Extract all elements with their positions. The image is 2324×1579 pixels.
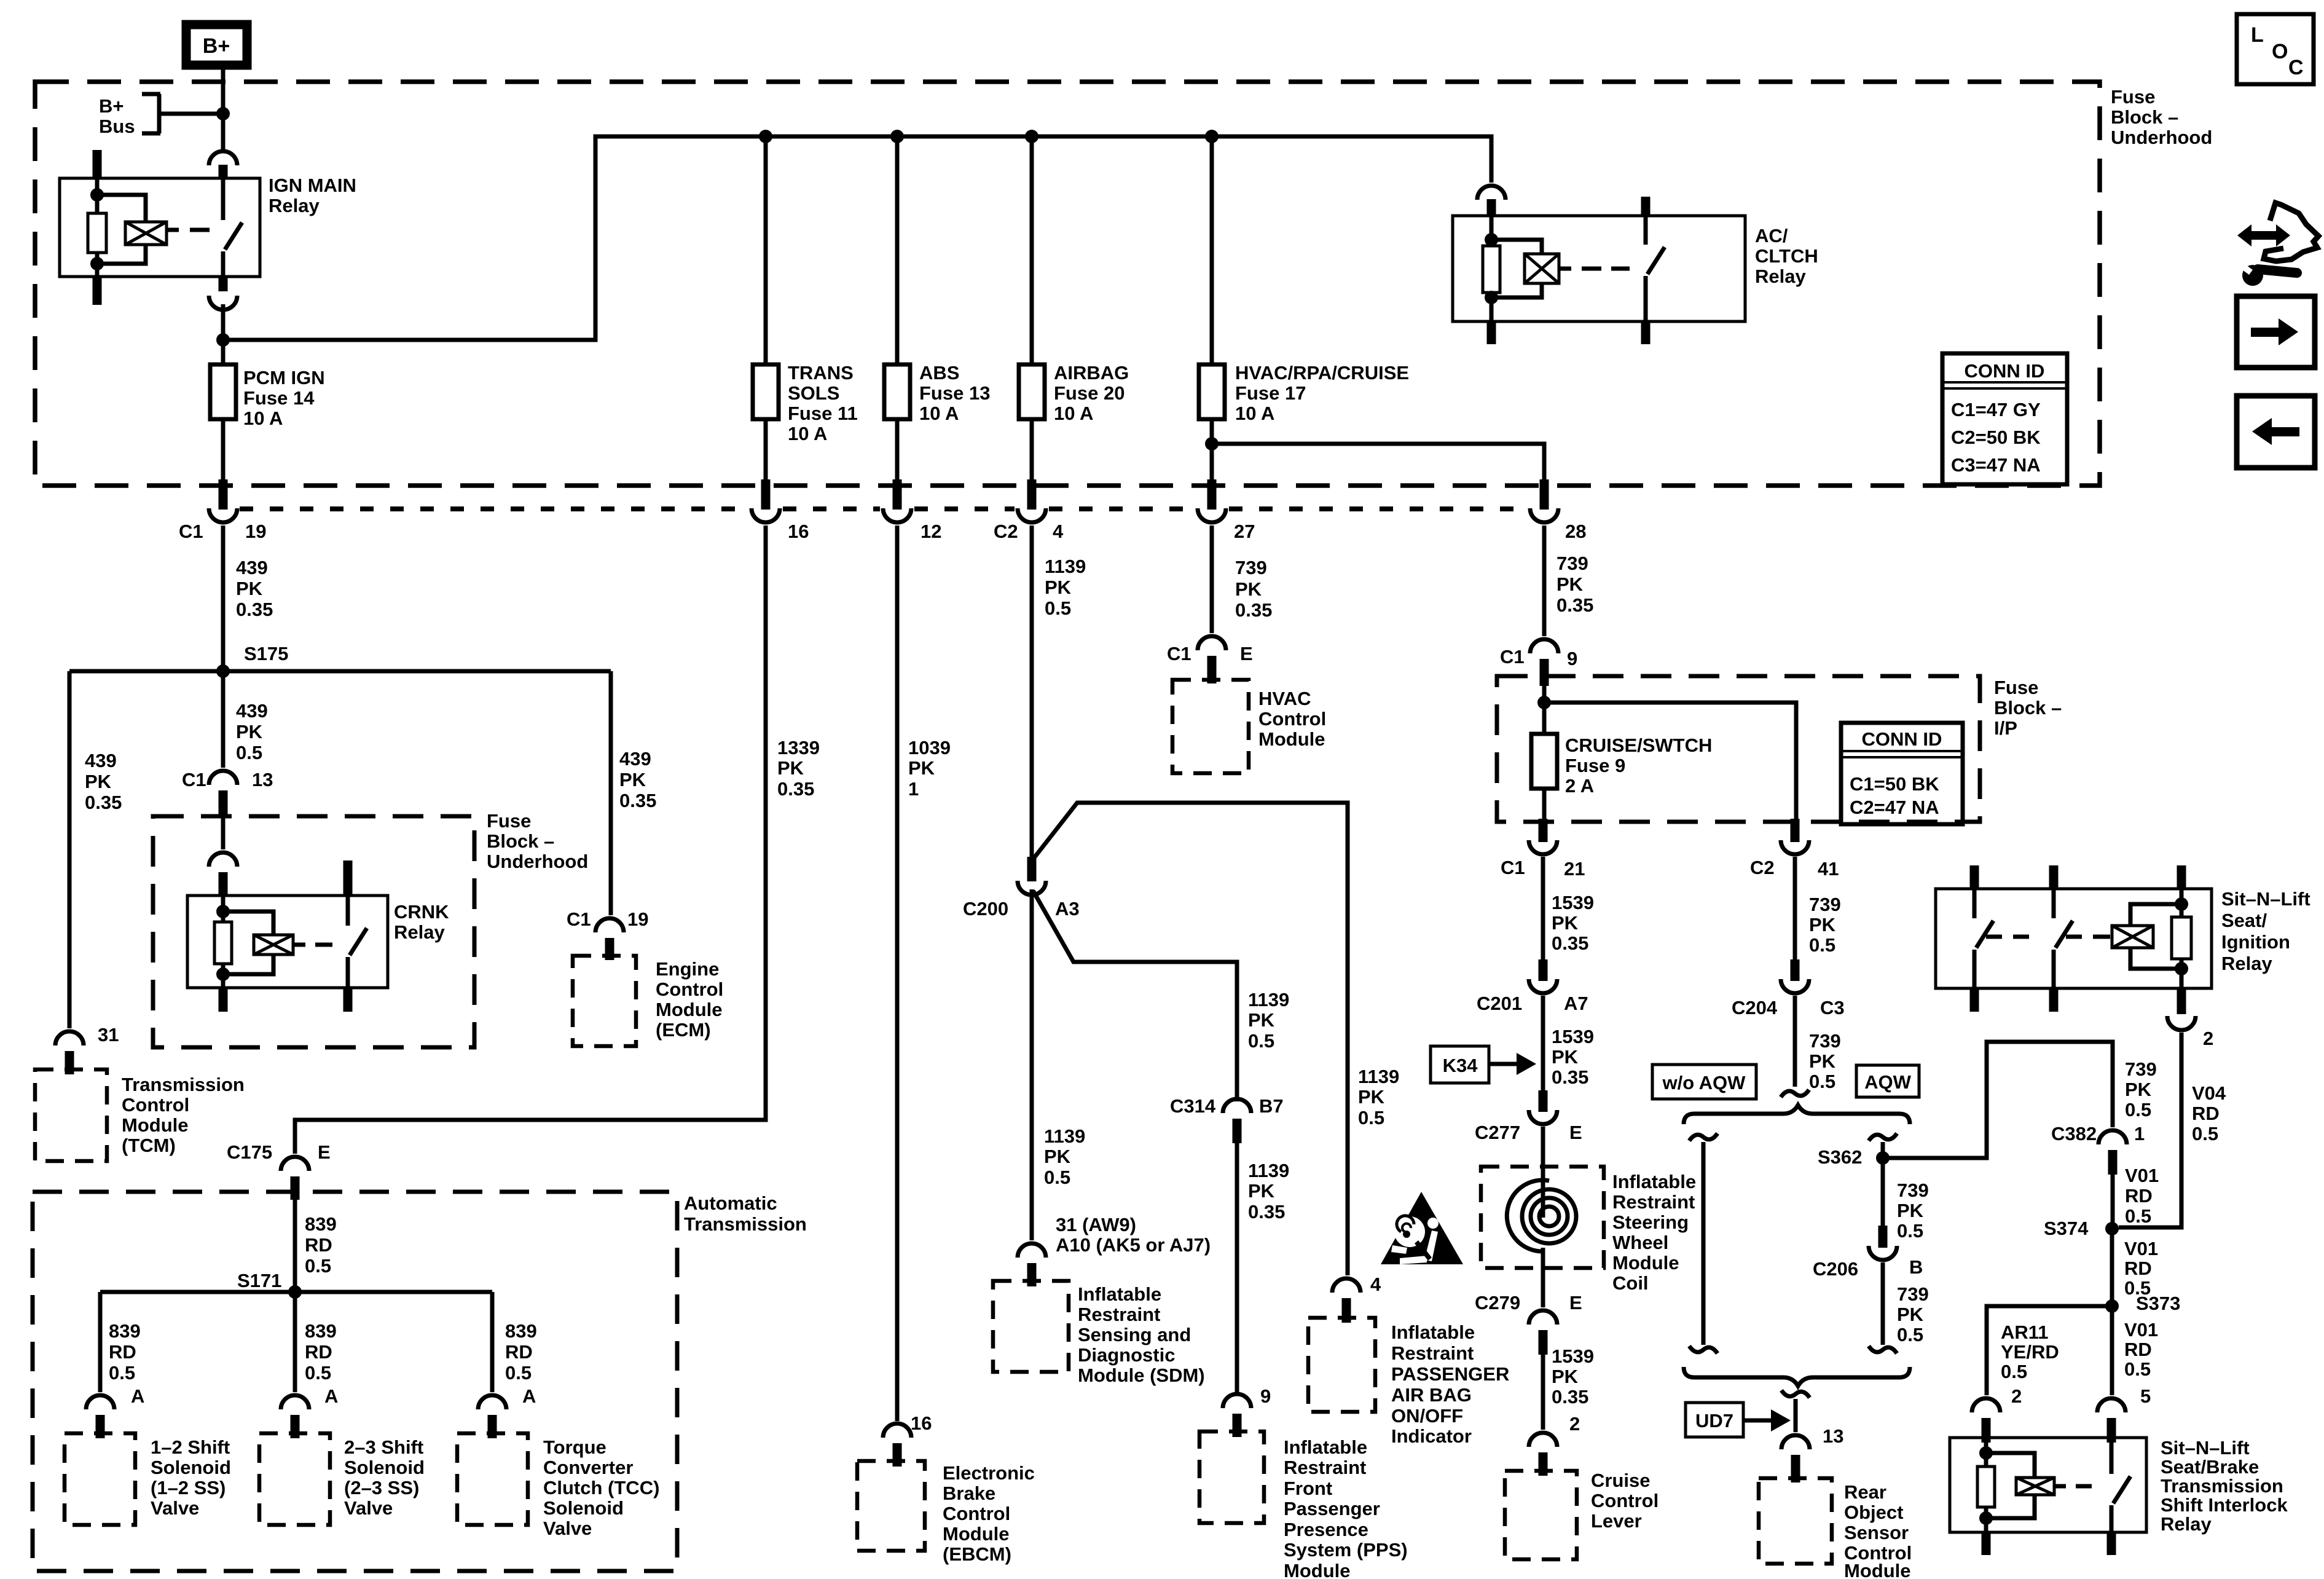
svg-text:TRANS: TRANS	[788, 362, 854, 384]
switch of AC CLTCH relay	[1646, 216, 1665, 321]
junction B+ bus	[216, 107, 230, 120]
wire C1 21 to C201	[1541, 857, 1545, 961]
label V04 RD 0.5	[2192, 1082, 2226, 1144]
svg-text:C314: C314	[1170, 1095, 1216, 1117]
fuse TRANS SOLS Fuse 11	[753, 136, 779, 486]
svg-text:Relay: Relay	[2221, 953, 2272, 974]
svg-text:0.5: 0.5	[2125, 1205, 2151, 1227]
automatic transmission dashed border	[33, 1192, 677, 1571]
option upper brace	[1684, 1105, 1910, 1124]
connector arc 2 seat relay	[2167, 1016, 2196, 1030]
svg-text:Module: Module	[943, 1523, 1010, 1545]
in-line harness connector dotted line	[1229, 506, 1527, 511]
fuse AIRBAG Fuse 20	[1019, 136, 1045, 486]
label A pin1	[131, 1385, 144, 1407]
svg-text:YE/RD: YE/RD	[2001, 1341, 2059, 1363]
relay AC CLTCH box	[1453, 216, 1745, 321]
svg-text:PK: PK	[236, 578, 263, 599]
svg-text:Cruise: Cruise	[1591, 1470, 1650, 1491]
resistor in CRNK relay	[214, 922, 232, 964]
svg-text:E: E	[318, 1141, 331, 1163]
svg-text:Fuse 9: Fuse 9	[1565, 755, 1625, 776]
pin C204 C3	[1791, 959, 1800, 981]
connector arc 27	[1198, 508, 1226, 522]
svg-text:C1=47 GY: C1=47 GY	[1951, 399, 2041, 420]
label 439 PK 0.5	[236, 700, 268, 763]
svg-text:PK: PK	[1235, 578, 1262, 600]
label 27	[1234, 521, 1255, 542]
svg-text:PK: PK	[777, 757, 804, 779]
label 439 PK 0.35 circuit	[236, 557, 273, 620]
module PPS dashed box	[1199, 1431, 1264, 1523]
connector arc 31	[55, 1031, 84, 1045]
svg-text:Block –: Block –	[1994, 697, 2062, 719]
label V01 RD 0.5 b	[2124, 1238, 2158, 1299]
module ECM dashed box	[573, 956, 636, 1046]
svg-text:Fuse 17: Fuse 17	[1235, 382, 1306, 404]
wire C314 to 9	[1235, 1143, 1239, 1393]
svg-text:Module: Module	[1258, 728, 1325, 750]
wire C382 to S374	[2111, 1175, 2115, 1229]
svg-text:1539: 1539	[1552, 1345, 1594, 1367]
svg-text:0.35: 0.35	[619, 790, 656, 811]
svg-text:Module: Module	[122, 1114, 189, 1136]
svg-text:4: 4	[1053, 521, 1064, 542]
svg-text:SOLS: SOLS	[788, 382, 839, 404]
svg-text:4: 4	[1370, 1274, 1381, 1295]
relay CRNK box	[187, 896, 388, 988]
label Inflatable Restraint SDM	[1078, 1283, 1205, 1386]
label S374	[2044, 1218, 2089, 1239]
svg-text:0.5: 0.5	[1897, 1220, 1923, 1242]
label Automatic Transmission	[684, 1192, 807, 1235]
svg-text:V01: V01	[2124, 1319, 2158, 1341]
svg-text:Control: Control	[656, 979, 723, 1000]
svg-text:C200: C200	[963, 898, 1008, 919]
svg-text:9: 9	[1567, 648, 1577, 669]
svg-text:2: 2	[1569, 1413, 1580, 1435]
label 839 RD 0.5 branch2	[305, 1320, 337, 1384]
junction below IGN MAIN relay	[216, 333, 230, 347]
wire C206 to option end	[1881, 1262, 1885, 1345]
junction S171	[288, 1285, 302, 1299]
svg-text:1: 1	[908, 778, 919, 800]
wire C279 to cruise lever	[1541, 1355, 1545, 1430]
B+ battery feed terminal box	[186, 25, 247, 65]
svg-text:PK: PK	[236, 721, 263, 742]
svg-text:31: 31	[98, 1024, 119, 1045]
svg-text:ABS: ABS	[919, 362, 959, 384]
label 1539 PK 0.35 c	[1552, 1345, 1594, 1408]
connector arc A TCC	[478, 1395, 506, 1409]
resistor in IGN MAIN relay	[88, 213, 106, 253]
label 31	[98, 1024, 119, 1045]
coil of AC CLTCH relay	[1525, 254, 1559, 283]
svg-text:1: 1	[2134, 1123, 2145, 1144]
service icon outline	[2264, 203, 2318, 261]
svg-text:PK: PK	[1552, 912, 1579, 934]
svg-text:C2=47 NA: C2=47 NA	[1850, 797, 1939, 818]
wire into clockspring	[1541, 1127, 1545, 1218]
svg-text:PASSENGER: PASSENGER	[1391, 1363, 1509, 1385]
svg-text:19: 19	[627, 908, 648, 930]
svg-text:19: 19	[245, 521, 266, 542]
svg-text:0.5: 0.5	[236, 742, 262, 763]
connector arc C279 E	[1529, 1310, 1557, 1325]
label HVAC/RPA/CRUISE Fuse 17 10 A	[1235, 362, 1409, 424]
label C314 B7	[1170, 1095, 1284, 1117]
AC CLTCH coil branch wire	[1485, 216, 1498, 321]
w/o AQW option wire	[1702, 1142, 1706, 1345]
svg-text:C201: C201	[1477, 993, 1522, 1014]
svg-text:Fuse 14: Fuse 14	[243, 387, 315, 409]
svg-text:B+: B+	[99, 95, 124, 117]
label S171	[237, 1270, 281, 1291]
svg-text:Presence: Presence	[1284, 1519, 1368, 1540]
pin A 1-2	[96, 1415, 105, 1438]
svg-text:C1=50 BK: C1=50 BK	[1850, 773, 1939, 795]
svg-text:C2=50 BK: C2=50 BK	[1951, 427, 2041, 448]
pin into CRNK relay	[219, 872, 228, 897]
fuse CRUISE/SWTCH Fuse 9	[1531, 734, 1557, 824]
switch 1 of seat ignition relay	[1974, 889, 1993, 988]
module EBCM dashed box	[857, 1461, 925, 1551]
pin fuse20 to C2 4	[1027, 479, 1037, 510]
label 1339 PK 0.35	[777, 737, 820, 800]
svg-text:0.5: 0.5	[2125, 1099, 2151, 1120]
fuse block underhood second dashed border	[153, 816, 474, 1047]
label 5 interlock	[2140, 1385, 2151, 1407]
CRNK coil pin bottom	[219, 986, 228, 1012]
svg-text:0.5: 0.5	[1044, 1167, 1070, 1188]
interlock coil pin bottom	[1982, 1531, 1991, 1555]
label 2 interlock	[2011, 1385, 2022, 1407]
svg-text:B: B	[1909, 1256, 1923, 1278]
pin C2 41	[1791, 819, 1800, 842]
junction fuse17 split	[1205, 437, 1219, 451]
svg-text:0.5: 0.5	[1045, 597, 1071, 619]
label 1-2 Shift Solenoid Valve	[151, 1436, 231, 1519]
svg-text:Transmission: Transmission	[2161, 1475, 2283, 1497]
wire S362 to C382	[1883, 1042, 2113, 1158]
wire S171 to 1-2 solenoid	[98, 1292, 103, 1392]
connector arc C1 E HVAC	[1198, 636, 1226, 650]
IGN MAIN coil pin stub top	[93, 150, 102, 179]
wire 27 to HVAC module	[1210, 526, 1214, 633]
svg-text:PK: PK	[1248, 1180, 1275, 1202]
svg-text:Diagnostic: Diagnostic	[1078, 1344, 1175, 1366]
svg-text:0.35: 0.35	[1557, 594, 1593, 616]
svg-text:AR11: AR11	[2001, 1321, 2049, 1343]
seat relay switch2 pin bottom	[2049, 987, 2059, 1012]
svg-text:S171: S171	[237, 1270, 281, 1291]
wire S373 to pin 2	[1987, 1306, 2112, 1395]
label 1539 PK 0.35 a	[1552, 892, 1594, 954]
connector arc 16	[752, 508, 780, 522]
label C277 E	[1475, 1122, 1582, 1143]
svg-text:Seat/: Seat/	[2221, 910, 2267, 931]
wire fuse17 to pin 28	[1212, 444, 1544, 486]
label 2 seat relay	[2203, 1028, 2213, 1049]
fuse HVAC/RPA/CRUISE Fuse 17	[1199, 136, 1225, 486]
svg-text:Inflatable: Inflatable	[1391, 1321, 1475, 1343]
svg-text:C3=47 NA: C3=47 NA	[1951, 454, 2041, 476]
svg-text:839: 839	[505, 1320, 537, 1342]
wire S171 horizontal	[100, 1290, 492, 1294]
svg-text:Fuse 20: Fuse 20	[1054, 382, 1125, 404]
pin C279 E	[1539, 1330, 1548, 1355]
svg-text:Control: Control	[943, 1503, 1010, 1524]
svg-text:HVAC: HVAC	[1258, 688, 1311, 709]
svg-text:Inflatable: Inflatable	[1612, 1171, 1696, 1192]
svg-text:Solenoid: Solenoid	[344, 1457, 425, 1478]
wire S374 to S373	[2110, 1229, 2114, 1306]
junction S362	[1876, 1151, 1890, 1165]
svg-text:PK: PK	[1552, 1366, 1579, 1387]
pin C206 B	[1878, 1226, 1888, 1248]
coil of IGN MAIN relay	[125, 222, 167, 245]
wire C201 to C277	[1541, 996, 1545, 1092]
label 12	[921, 521, 941, 542]
label AR11 YE/RD 0.5	[2001, 1321, 2059, 1382]
label w/o AQW box	[1652, 1065, 1756, 1099]
pin to 28	[1540, 479, 1549, 510]
svg-text:PCM IGN: PCM IGN	[243, 367, 325, 388]
label UD7 box	[1686, 1403, 1743, 1437]
svg-text:Indicator: Indicator	[1391, 1425, 1472, 1447]
svg-text:839: 839	[305, 1320, 337, 1342]
svg-text:Control: Control	[1591, 1490, 1659, 1511]
label 739 PK 0.5 b	[1809, 1030, 1841, 1092]
label S362	[1818, 1146, 1862, 1168]
label IGN MAIN Relay	[269, 175, 356, 216]
label C2 41	[1750, 857, 1839, 880]
pin C314 B7	[1233, 1119, 1242, 1143]
svg-text:0.5: 0.5	[305, 1255, 331, 1277]
svg-text:0.35: 0.35	[236, 599, 273, 620]
svg-text:C3: C3	[1820, 997, 1845, 1018]
svg-text:PK: PK	[1248, 1009, 1275, 1031]
pin fuse17 to 27	[1207, 479, 1217, 510]
junction bus HVAC	[1205, 130, 1219, 143]
svg-text:739: 739	[1557, 553, 1588, 574]
label 28	[1565, 521, 1586, 542]
wire inside IP block	[1544, 682, 1796, 824]
svg-text:A: A	[324, 1385, 338, 1407]
option merge tilde	[1781, 1390, 1810, 1398]
pin A TCC	[488, 1415, 497, 1438]
switch 2 of seat ignition relay	[2054, 889, 2073, 988]
label Cruise Control Lever	[1591, 1470, 1659, 1532]
svg-text:41: 41	[1818, 858, 1839, 880]
svg-text:C206: C206	[1813, 1258, 1858, 1280]
option split tilde	[1781, 1090, 1809, 1097]
wire S171 to 2-3 solenoid	[293, 1292, 297, 1392]
svg-text:0.5: 0.5	[2192, 1123, 2218, 1144]
svg-text:28: 28	[1565, 521, 1586, 542]
svg-text:V04: V04	[2192, 1082, 2226, 1104]
wire S171 to TCC solenoid	[490, 1292, 495, 1392]
svg-text:Solenoid: Solenoid	[543, 1497, 624, 1519]
svg-text:1139: 1139	[1044, 1125, 1085, 1147]
clockspring coil spiral	[1507, 1180, 1576, 1251]
svg-text:13: 13	[252, 769, 273, 790]
svg-text:1539: 1539	[1552, 892, 1594, 913]
CRNK coil dashed link	[293, 943, 332, 947]
pin 31 SDM	[1027, 1263, 1037, 1286]
label 839 RD 0.5 branch1	[109, 1320, 141, 1384]
svg-text:Relay: Relay	[1755, 266, 1806, 287]
label 1139 PK 0.5 top	[1045, 556, 1086, 619]
svg-text:2: 2	[2203, 1028, 2213, 1049]
wire B+ to IGN MAIN relay	[221, 65, 226, 149]
fuse block underhood dashed border	[35, 82, 2100, 486]
pin C1 13	[219, 790, 228, 817]
module TCM dashed box	[35, 1069, 107, 1161]
svg-text:0.5: 0.5	[305, 1362, 331, 1384]
svg-text:0.35: 0.35	[777, 778, 814, 800]
svg-text:PK: PK	[1809, 914, 1836, 935]
label C206 B	[1813, 1256, 1923, 1280]
svg-text:RD: RD	[2124, 1339, 2152, 1360]
svg-text:10 A: 10 A	[243, 408, 283, 429]
svg-text:PK: PK	[2125, 1079, 2152, 1100]
seat relay coil loop	[2130, 904, 2181, 969]
svg-text:Solenoid: Solenoid	[151, 1457, 231, 1478]
airbag warning triangle icon	[1381, 1192, 1463, 1264]
wire bus to fuse row	[223, 136, 1491, 340]
svg-text:439: 439	[236, 700, 268, 722]
connector arc 9 PPS	[1223, 1394, 1251, 1408]
svg-text:12: 12	[921, 521, 941, 542]
pin C277 E	[1539, 1090, 1548, 1112]
svg-text:1139: 1139	[1358, 1066, 1399, 1087]
connector arc C200 A3	[1018, 881, 1046, 895]
svg-text:439: 439	[236, 557, 268, 578]
relay IGN MAIN box	[60, 178, 260, 277]
wire 12 to EBCM	[895, 526, 900, 1421]
svg-text:L: L	[2251, 23, 2264, 47]
svg-text:C1: C1	[567, 908, 591, 930]
in-line harness connector dotted line	[914, 506, 1015, 511]
AC CLTCH coil pin bottom	[1487, 320, 1496, 344]
svg-text:Restraint: Restraint	[1612, 1191, 1695, 1213]
svg-text:RD: RD	[305, 1234, 332, 1256]
svg-text:439: 439	[85, 750, 117, 771]
pin 13 rear object	[1791, 1455, 1800, 1483]
pointer arrow right box	[2237, 296, 2315, 368]
relay Sit-N-Lift Seat/Ignition box	[1936, 889, 2212, 988]
svg-text:31 (AW9): 31 (AW9)	[1056, 1214, 1136, 1235]
pin C201 A7	[1539, 959, 1548, 981]
svg-text:C175: C175	[227, 1141, 272, 1163]
svg-text:0.35: 0.35	[1552, 932, 1588, 954]
connector arc 28	[1530, 508, 1558, 522]
label C382 1	[2051, 1123, 2145, 1144]
seat relay switch1 pin top	[1970, 865, 1979, 890]
pin 31 TCM	[65, 1051, 74, 1074]
wire C204 to option split	[1793, 996, 1797, 1087]
connector arc C1 21	[1529, 840, 1557, 854]
module SDM dashed box	[993, 1281, 1069, 1372]
label 739 PK 0.35 circuit27	[1235, 557, 1272, 621]
IGN MAIN coil branch wire	[90, 178, 104, 277]
svg-text:AIRBAG: AIRBAG	[1054, 362, 1129, 384]
svg-text:PK: PK	[85, 771, 112, 792]
svg-text:Control: Control	[122, 1094, 189, 1116]
in-line harness connector dotted line	[240, 506, 748, 511]
svg-text:S362: S362	[1818, 1146, 1862, 1168]
label B+ Bus	[99, 95, 135, 137]
svg-text:C277: C277	[1475, 1122, 1520, 1143]
interlock switch pin bottom	[2107, 1531, 2116, 1555]
svg-text:Clutch (TCC): Clutch (TCC)	[543, 1477, 659, 1498]
svg-text:C1: C1	[1167, 643, 1191, 664]
svg-text:Module: Module	[1612, 1252, 1679, 1274]
svg-text:(EBCM): (EBCM)	[943, 1543, 1011, 1565]
service icon double arrow	[2237, 224, 2290, 246]
svg-text:16: 16	[788, 521, 809, 542]
w/o AQW option wire hook top	[1689, 1133, 1717, 1141]
svg-text:Automatic: Automatic	[684, 1192, 777, 1214]
pin 2 interlock	[1982, 1418, 1991, 1443]
label C201 A7	[1477, 993, 1588, 1014]
pin 16 EBCM	[893, 1443, 902, 1467]
label 1139 PK 0.35	[1248, 1160, 1289, 1223]
svg-text:Passenger: Passenger	[1284, 1498, 1380, 1519]
connector arc A 1-2	[86, 1395, 114, 1409]
svg-text:Sit–N–Lift: Sit–N–Lift	[2161, 1437, 2250, 1459]
pin C1 21	[1539, 819, 1548, 842]
wire C2 41 to C204	[1793, 857, 1797, 961]
svg-text:1539: 1539	[1552, 1026, 1594, 1047]
svg-text:C1: C1	[182, 769, 206, 790]
label Sit-N-Lift Seat Ignition Relay	[2221, 888, 2310, 974]
label Inflatable Restraint Steering Wheel Module Coil	[1612, 1171, 1696, 1294]
svg-text:PK: PK	[1897, 1304, 1924, 1325]
svg-text:C1: C1	[1500, 646, 1525, 667]
connector arc A 2-3	[281, 1395, 309, 1409]
module cruise control lever dashed box	[1505, 1471, 1577, 1559]
label AIRBAG Fuse 20 10 A	[1054, 362, 1129, 424]
label 739 PK 0.5 d	[1897, 1283, 1929, 1345]
svg-text:Fuse: Fuse	[2111, 86, 2155, 108]
label 1139 PK 0.5 SDM	[1044, 1125, 1085, 1188]
label HVAC Control Module	[1258, 688, 1326, 750]
svg-text:Relay: Relay	[269, 195, 320, 216]
svg-text:CRNK: CRNK	[394, 901, 449, 923]
svg-text:Module: Module	[656, 999, 723, 1020]
connector arc into AC CLTCH relay	[1477, 186, 1505, 200]
svg-text:S175: S175	[244, 643, 288, 664]
wire clockspring to C279	[1541, 1248, 1545, 1307]
label A pin2	[324, 1385, 338, 1407]
label CRNK Relay	[394, 901, 449, 943]
seat relay switch1 pin bottom	[1970, 987, 1979, 1012]
pin C1 9	[1540, 659, 1549, 686]
connector arc 13 rear object	[1781, 1435, 1810, 1449]
svg-text:1139: 1139	[1248, 1160, 1289, 1181]
connector arc 12	[883, 508, 911, 522]
svg-text:Module: Module	[1844, 1560, 1911, 1579]
svg-text:1139: 1139	[1045, 556, 1086, 577]
svg-text:739: 739	[1809, 894, 1841, 915]
svg-text:Block –: Block –	[487, 830, 554, 852]
label CRUISE/SWTCH Fuse 9 2 A	[1565, 734, 1712, 797]
wire V04 seat relay to S374	[2119, 1033, 2181, 1227]
label C1 9	[1500, 646, 1577, 669]
svg-text:PK: PK	[1045, 577, 1072, 598]
